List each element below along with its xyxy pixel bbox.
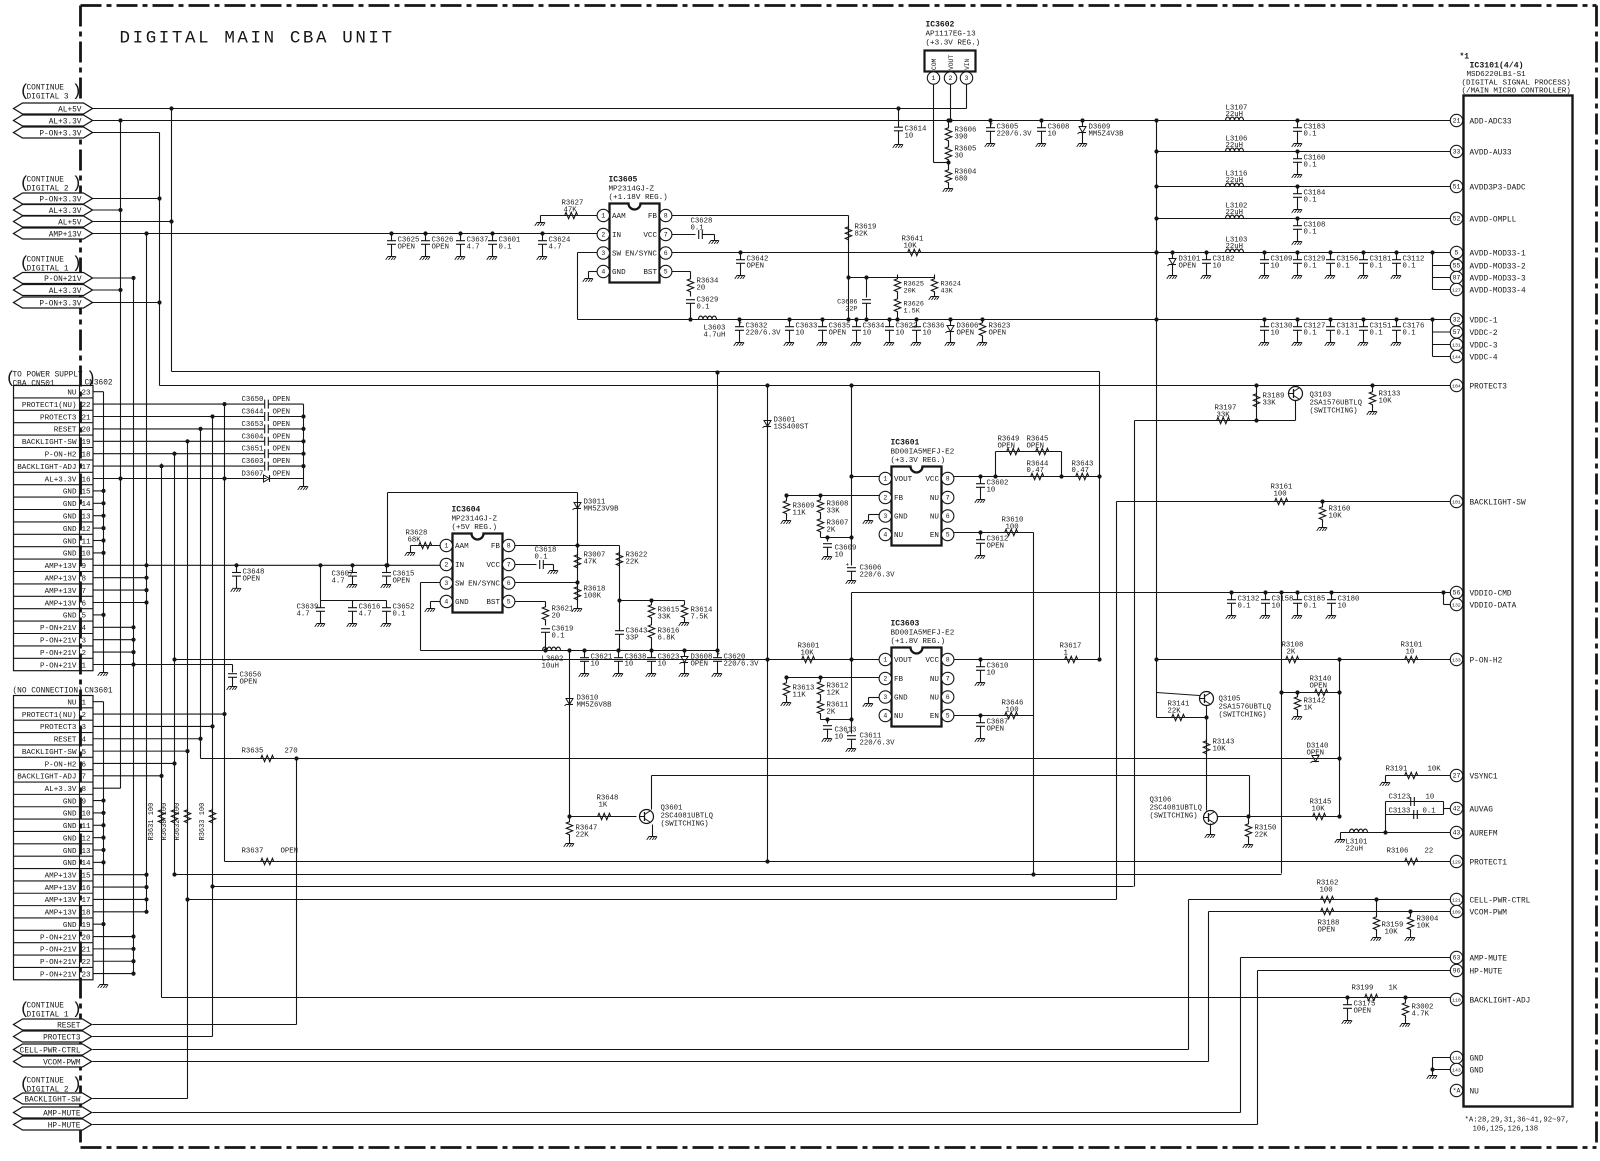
- svg-text:0.1: 0.1: [1238, 603, 1252, 611]
- svg-text:OPEN: OPEN: [987, 726, 1005, 734]
- svg-text:GND: GND: [63, 551, 77, 559]
- svg-text:P-ON+21V: P-ON+21V: [40, 947, 77, 955]
- svg-text:56: 56: [1453, 590, 1461, 597]
- svg-text:19: 19: [82, 439, 92, 447]
- svg-text:20: 20: [697, 285, 706, 293]
- svg-text:VDDC-3: VDDC-3: [1470, 342, 1498, 350]
- svg-text:6: 6: [507, 580, 511, 587]
- svg-text:MM5Z4V3B: MM5Z4V3B: [1089, 131, 1125, 139]
- svg-text:87: 87: [1453, 275, 1461, 282]
- svg-text:1: 1: [601, 213, 605, 220]
- svg-text:11K: 11K: [793, 510, 807, 518]
- svg-text:33P: 33P: [626, 635, 639, 643]
- svg-text:): ): [72, 1076, 82, 1095]
- svg-text:EN/SYNC: EN/SYNC: [468, 581, 500, 589]
- svg-text:GND: GND: [63, 811, 77, 819]
- svg-text:MP2314GJ-Z: MP2314GJ-Z: [452, 516, 498, 524]
- svg-text:0.1: 0.1: [1304, 229, 1318, 237]
- svg-text:15: 15: [82, 489, 92, 497]
- svg-text:9: 9: [82, 563, 87, 571]
- svg-text:143: 143: [1452, 1068, 1461, 1074]
- svg-text:): ): [72, 175, 82, 194]
- svg-text:P-ON+21V: P-ON+21V: [40, 959, 77, 967]
- svg-text:*1: *1: [1460, 53, 1470, 62]
- svg-text:0.1: 0.1: [1304, 603, 1318, 611]
- svg-text:): ): [72, 83, 82, 102]
- svg-text:30: 30: [955, 153, 964, 161]
- svg-text:(: (: [20, 83, 30, 102]
- svg-text:13: 13: [82, 514, 92, 522]
- svg-text:21: 21: [82, 947, 92, 955]
- svg-text:IC3603: IC3603: [891, 620, 920, 629]
- svg-text:P-ON+21V: P-ON+21V: [44, 276, 82, 284]
- svg-text:1: 1: [883, 476, 887, 483]
- svg-text:10K: 10K: [1385, 929, 1399, 937]
- svg-text:10K: 10K: [1312, 806, 1326, 814]
- svg-text:47K: 47K: [584, 559, 598, 567]
- svg-text:MSD6220LB1-S1: MSD6220LB1-S1: [1467, 71, 1527, 79]
- svg-text:OPEN: OPEN: [273, 446, 291, 454]
- svg-text:144: 144: [1452, 355, 1461, 361]
- svg-text:10: 10: [1213, 263, 1222, 271]
- svg-text:4.7: 4.7: [297, 611, 310, 619]
- svg-text:4.7: 4.7: [359, 611, 372, 619]
- svg-text:27: 27: [1453, 773, 1461, 780]
- svg-text:OPEN: OPEN: [281, 848, 299, 856]
- svg-text:82K: 82K: [855, 231, 869, 239]
- svg-text:2SA1576UBTLQ: 2SA1576UBTLQ: [1219, 704, 1272, 712]
- svg-text:VIN: VIN: [964, 58, 971, 70]
- svg-text:20: 20: [82, 427, 92, 435]
- svg-text:7: 7: [507, 562, 511, 569]
- svg-text:C3604: C3604: [242, 433, 265, 441]
- svg-text:D3607: D3607: [242, 471, 264, 479]
- svg-text:OPEN: OPEN: [1310, 683, 1328, 691]
- svg-text:AAM: AAM: [612, 213, 626, 221]
- svg-text:R3635: R3635: [242, 748, 264, 756]
- svg-text:1: 1: [82, 699, 87, 707]
- svg-text:AMP+13V: AMP+13V: [45, 873, 77, 881]
- svg-text:CN3602: CN3602: [85, 380, 113, 388]
- svg-text:OPEN: OPEN: [243, 575, 261, 583]
- svg-text:DIGITAL MAIN CBA UNIT: DIGITAL MAIN CBA UNIT: [120, 29, 395, 49]
- svg-text:(+1.8V REG.): (+1.8V REG.): [891, 638, 946, 646]
- svg-text:PROTECT1(NU): PROTECT1(NU): [22, 402, 77, 410]
- svg-text:100: 100: [1274, 491, 1287, 499]
- svg-text:P-ON+3.3V: P-ON+3.3V: [39, 196, 81, 204]
- svg-text:OPEN: OPEN: [957, 330, 975, 338]
- svg-text:17: 17: [82, 897, 91, 905]
- svg-text:4: 4: [883, 713, 887, 720]
- svg-text:1K: 1K: [1389, 985, 1398, 993]
- svg-text:R3106: R3106: [1387, 848, 1409, 856]
- svg-text:10: 10: [625, 661, 634, 669]
- svg-text:121: 121: [1452, 898, 1461, 904]
- svg-text:PROTECT3: PROTECT3: [43, 1034, 81, 1042]
- svg-text:VCC: VCC: [643, 232, 657, 240]
- svg-text:22uH: 22uH: [1226, 111, 1244, 119]
- svg-text:BACKLIGHT-ADJ: BACKLIGHT-ADJ: [17, 774, 76, 782]
- svg-text:AVDD-MOD33-2: AVDD-MOD33-2: [1470, 263, 1526, 271]
- svg-text:OPEN: OPEN: [1027, 443, 1045, 451]
- svg-text:(SWITCHING): (SWITCHING): [1150, 813, 1198, 821]
- svg-text:PROTECT3: PROTECT3: [40, 414, 77, 422]
- svg-text:ADD-ADC33: ADD-ADC33: [1470, 118, 1512, 126]
- svg-text:VCC: VCC: [925, 476, 939, 484]
- svg-text:OPEN: OPEN: [1318, 927, 1336, 935]
- svg-text:BACKLIGHT-SW: BACKLIGHT-SW: [24, 1096, 80, 1104]
- svg-text:10uH: 10uH: [542, 663, 560, 671]
- svg-text:10: 10: [987, 670, 996, 678]
- svg-text:6: 6: [82, 600, 87, 608]
- svg-text:GND: GND: [63, 514, 77, 522]
- svg-text:0.1: 0.1: [1370, 263, 1384, 271]
- svg-text:RESET: RESET: [54, 427, 77, 435]
- svg-text:FB: FB: [894, 495, 904, 503]
- svg-text:AL+3.3V: AL+3.3V: [45, 786, 77, 794]
- svg-text:OPEN: OPEN: [998, 443, 1016, 451]
- svg-text:0.1: 0.1: [1337, 263, 1351, 271]
- svg-text:101: 101: [1452, 500, 1461, 506]
- svg-text:GND: GND: [63, 538, 77, 546]
- svg-text:21: 21: [1453, 118, 1461, 125]
- svg-text:390: 390: [955, 134, 968, 142]
- svg-text:22uH: 22uH: [1226, 177, 1244, 185]
- svg-text:0.47: 0.47: [1072, 467, 1090, 475]
- svg-text:22: 22: [1425, 848, 1434, 856]
- svg-text:10: 10: [82, 811, 92, 819]
- svg-text:R3199: R3199: [1352, 985, 1374, 993]
- svg-text:1K: 1K: [599, 802, 608, 810]
- svg-text:AMP-MUTE: AMP-MUTE: [43, 1110, 81, 1118]
- svg-text:109: 109: [1452, 910, 1461, 916]
- svg-text:OPEN: OPEN: [273, 458, 291, 466]
- svg-text:22K: 22K: [576, 832, 590, 840]
- svg-text:10: 10: [82, 551, 92, 559]
- svg-text:BD00IA5MEFJ-E2: BD00IA5MEFJ-E2: [891, 449, 955, 457]
- svg-text:(: (: [20, 1076, 30, 1095]
- svg-text:8: 8: [507, 543, 511, 550]
- svg-text:OPEN: OPEN: [1307, 750, 1325, 758]
- svg-text:12: 12: [82, 526, 92, 534]
- svg-text:10: 10: [1338, 603, 1347, 611]
- svg-text:10K: 10K: [1417, 923, 1431, 931]
- svg-text:220/6.3V: 220/6.3V: [860, 740, 896, 748]
- svg-text:*A:28,29,31,36~41,92~97,: *A:28,29,31,36~41,92~97,: [1465, 1117, 1570, 1125]
- svg-text:7.5K: 7.5K: [691, 614, 709, 622]
- svg-text:(DIGITAL SIGNAL PROCESS): (DIGITAL SIGNAL PROCESS): [1462, 80, 1571, 88]
- svg-text:8: 8: [664, 213, 668, 220]
- svg-text:P-ON+21V: P-ON+21V: [40, 662, 77, 670]
- svg-text:CONTINUE: CONTINUE: [27, 1003, 65, 1011]
- svg-text:33K: 33K: [1217, 412, 1231, 420]
- svg-text:6: 6: [946, 513, 950, 520]
- svg-text:2: 2: [601, 232, 605, 239]
- svg-text:1: 1: [82, 662, 87, 670]
- svg-text:(+3.3V REG.): (+3.3V REG.): [891, 457, 946, 465]
- svg-text:NU: NU: [894, 532, 904, 540]
- svg-text:23: 23: [82, 390, 92, 398]
- svg-text:GND: GND: [63, 823, 77, 831]
- svg-text:220/6.3V: 220/6.3V: [860, 572, 896, 580]
- svg-text:4.7: 4.7: [332, 577, 345, 585]
- svg-text:1: 1: [1064, 650, 1069, 658]
- svg-text:PROTECT3: PROTECT3: [40, 724, 77, 732]
- svg-text:OPEN: OPEN: [273, 471, 291, 479]
- svg-text:0.1: 0.1: [1403, 263, 1417, 271]
- svg-text:68K: 68K: [408, 537, 422, 545]
- svg-text:131: 131: [1452, 343, 1461, 349]
- svg-text:0.1: 0.1: [1370, 330, 1384, 338]
- svg-text:AVDD-OMPLL: AVDD-OMPLL: [1470, 216, 1517, 224]
- svg-text:7: 7: [82, 588, 87, 596]
- svg-text:10: 10: [1272, 603, 1281, 611]
- svg-text:10K: 10K: [1329, 513, 1343, 521]
- svg-text:OPEN: OPEN: [1179, 263, 1197, 271]
- svg-text:+: +: [846, 562, 850, 569]
- svg-text:10K: 10K: [1428, 766, 1442, 774]
- svg-text:6: 6: [82, 761, 87, 769]
- svg-text:0.1: 0.1: [1304, 162, 1318, 170]
- svg-text:10: 10: [987, 487, 996, 495]
- svg-text:2: 2: [883, 676, 887, 683]
- svg-text:*A: *A: [1453, 1088, 1461, 1095]
- svg-text:P-ON+21V: P-ON+21V: [40, 638, 77, 646]
- svg-text:0.1: 0.1: [697, 304, 711, 312]
- svg-text:0.1: 0.1: [1403, 330, 1417, 338]
- svg-text:5: 5: [82, 613, 87, 621]
- svg-text:10: 10: [796, 330, 805, 338]
- svg-text:): ): [72, 1001, 82, 1020]
- svg-text:MM5Z6V8B: MM5Z6V8B: [577, 702, 613, 710]
- svg-text:0.1: 0.1: [1304, 330, 1318, 338]
- svg-text:57: 57: [1453, 329, 1461, 336]
- svg-text:NU: NU: [1470, 1088, 1480, 1096]
- svg-text:OPEN: OPEN: [398, 244, 416, 252]
- svg-text:(: (: [20, 255, 30, 274]
- svg-text:5: 5: [507, 599, 511, 606]
- svg-text:129: 129: [1452, 860, 1461, 866]
- svg-text:VCC: VCC: [925, 657, 939, 665]
- svg-text:22uH: 22uH: [1226, 243, 1244, 251]
- svg-text:2: 2: [883, 495, 887, 502]
- svg-text:22uH: 22uH: [1226, 142, 1244, 150]
- svg-text:55: 55: [1453, 263, 1461, 270]
- svg-text:(+3.3V REG.): (+3.3V REG.): [926, 40, 981, 48]
- svg-text:4.7uH: 4.7uH: [704, 332, 726, 340]
- svg-text:Q3103: Q3103: [1310, 392, 1332, 400]
- svg-text:HP-MUTE: HP-MUTE: [1470, 968, 1503, 976]
- svg-text:0.47: 0.47: [1027, 467, 1045, 475]
- svg-text:+: +: [717, 651, 721, 658]
- svg-text:11: 11: [82, 538, 92, 546]
- svg-text:22K: 22K: [1255, 832, 1269, 840]
- svg-text:BACKLIGHT-SW: BACKLIGHT-SW: [22, 749, 77, 757]
- svg-text:(SWITCHING): (SWITCHING): [1310, 408, 1358, 416]
- svg-text:33K: 33K: [658, 614, 672, 622]
- svg-text:C3133: C3133: [1389, 808, 1411, 816]
- svg-text:10K: 10K: [801, 650, 815, 658]
- svg-text:FB: FB: [894, 676, 904, 684]
- svg-text:22P: 22P: [845, 306, 857, 314]
- svg-text:22K: 22K: [626, 559, 640, 567]
- svg-text:NU: NU: [67, 390, 77, 398]
- svg-text:0.1: 0.1: [552, 633, 566, 641]
- svg-text:96: 96: [1453, 968, 1461, 975]
- svg-text:AVDD3P3-DADC: AVDD3P3-DADC: [1470, 184, 1526, 192]
- svg-text:220/6.3V: 220/6.3V: [997, 131, 1033, 139]
- svg-text:GND: GND: [612, 269, 626, 277]
- svg-text:5: 5: [82, 749, 87, 757]
- svg-text:OPEN: OPEN: [273, 396, 291, 404]
- svg-text:2: 2: [444, 562, 448, 569]
- svg-text:MP2314GJ-Z: MP2314GJ-Z: [609, 186, 655, 194]
- svg-text:33K: 33K: [827, 508, 841, 516]
- svg-text:C3653: C3653: [242, 421, 264, 429]
- svg-text:GND: GND: [63, 798, 77, 806]
- svg-text:IC3101(4/4): IC3101(4/4): [1470, 61, 1524, 71]
- svg-text:P-ON-H2: P-ON-H2: [1470, 657, 1503, 665]
- svg-text:1: 1: [932, 75, 936, 82]
- svg-text:9: 9: [82, 798, 87, 806]
- svg-text:GND: GND: [63, 860, 77, 868]
- svg-text:100: 100: [1006, 524, 1019, 532]
- svg-text:BD00IA5MEFJ-E2: BD00IA5MEFJ-E2: [891, 630, 955, 638]
- svg-text:FB: FB: [648, 213, 658, 221]
- svg-text:CONTINUE: CONTINUE: [27, 257, 65, 265]
- svg-text:110: 110: [1452, 998, 1461, 1004]
- svg-text:7: 7: [946, 495, 950, 502]
- svg-text:14: 14: [82, 860, 92, 868]
- svg-text:GND: GND: [894, 695, 908, 703]
- svg-text:10: 10: [1406, 649, 1415, 657]
- svg-text:10K: 10K: [1213, 746, 1227, 754]
- svg-text:20: 20: [552, 613, 561, 621]
- svg-text:BST: BST: [643, 269, 657, 277]
- svg-text:IN: IN: [455, 562, 464, 570]
- svg-text:6: 6: [664, 250, 668, 257]
- svg-text:33K: 33K: [1263, 400, 1277, 408]
- svg-text:(: (: [20, 175, 30, 194]
- svg-text:5: 5: [664, 269, 668, 276]
- svg-text:RESET: RESET: [57, 1022, 81, 1030]
- svg-text:2K: 2K: [827, 709, 836, 717]
- svg-text:12: 12: [82, 835, 92, 843]
- svg-text:EN/SYNC: EN/SYNC: [625, 251, 657, 259]
- svg-text:P-ON+21V: P-ON+21V: [40, 934, 77, 942]
- svg-text:Q3601: Q3601: [661, 805, 684, 813]
- svg-text:CONTINUE: CONTINUE: [27, 85, 65, 93]
- svg-text:CBA CN501: CBA CN501: [13, 381, 55, 389]
- svg-text:0.1: 0.1: [691, 225, 705, 233]
- svg-text:+: +: [846, 730, 850, 737]
- svg-text:2K: 2K: [827, 527, 836, 535]
- svg-text:R3638 100: R3638 100: [161, 803, 169, 841]
- svg-text:4: 4: [82, 737, 87, 745]
- svg-text:DIGITAL 3: DIGITAL 3: [27, 94, 69, 102]
- svg-text:2SC4081UBTLQ: 2SC4081UBTLQ: [1150, 805, 1203, 813]
- svg-text:2K: 2K: [1287, 649, 1296, 657]
- svg-text:VOUT: VOUT: [894, 476, 913, 484]
- svg-text:AL+3.3V: AL+3.3V: [49, 118, 82, 126]
- svg-text:BACKLIGHT-SW: BACKLIGHT-SW: [1470, 499, 1526, 507]
- svg-text:CELL-PWR-CTRL: CELL-PWR-CTRL: [20, 1047, 81, 1055]
- svg-text:0.1: 0.1: [1423, 808, 1437, 816]
- svg-text:GND: GND: [63, 501, 77, 509]
- svg-text:AMP-MUTE: AMP-MUTE: [1470, 955, 1508, 963]
- svg-text:11: 11: [82, 823, 92, 831]
- svg-text:OPEN: OPEN: [1354, 1008, 1372, 1016]
- svg-text:AMP+13V: AMP+13V: [49, 231, 82, 239]
- svg-text:CONTINUE: CONTINUE: [27, 1078, 65, 1086]
- svg-text:VOUT: VOUT: [948, 55, 955, 70]
- svg-text:118: 118: [1452, 1056, 1461, 1062]
- svg-text:VDDIO-CMD: VDDIO-CMD: [1470, 590, 1512, 598]
- svg-text:(SWITCHING): (SWITCHING): [1219, 712, 1267, 720]
- svg-text:R3637: R3637: [242, 848, 264, 856]
- svg-text:23: 23: [82, 971, 92, 979]
- svg-text:21: 21: [82, 414, 92, 422]
- svg-text:OPEN: OPEN: [747, 263, 765, 271]
- svg-text:10: 10: [1271, 330, 1280, 338]
- svg-text:C3651: C3651: [242, 446, 265, 454]
- svg-text:(NO CONNECTION): (NO CONNECTION): [13, 688, 83, 696]
- svg-text:GND: GND: [63, 848, 77, 856]
- svg-text:14: 14: [82, 501, 92, 509]
- svg-text:(+5V REG.): (+5V REG.): [452, 524, 498, 532]
- svg-text:51: 51: [1453, 184, 1461, 191]
- svg-text:1.5K: 1.5K: [904, 308, 921, 316]
- svg-text:PROTECT3: PROTECT3: [1470, 383, 1508, 391]
- svg-text:VOUT: VOUT: [894, 657, 913, 665]
- svg-text:R3191: R3191: [1386, 766, 1409, 774]
- svg-text:18: 18: [82, 910, 92, 918]
- svg-text:11K: 11K: [793, 692, 807, 700]
- svg-text:22uH: 22uH: [1226, 209, 1244, 217]
- svg-text:10K: 10K: [1379, 398, 1393, 406]
- svg-text:18: 18: [82, 452, 92, 460]
- svg-text:33: 33: [1453, 149, 1461, 156]
- svg-text:AAM: AAM: [455, 543, 469, 551]
- svg-text:1K: 1K: [1304, 705, 1313, 713]
- svg-text:(+1.18V REG.): (+1.18V REG.): [609, 194, 668, 202]
- svg-text:NU: NU: [930, 676, 940, 684]
- svg-text:P-ON+3.3V: P-ON+3.3V: [39, 300, 81, 308]
- svg-text:NU: NU: [930, 514, 940, 522]
- svg-text:AVDD-MOD33-3: AVDD-MOD33-3: [1470, 275, 1526, 283]
- svg-text:47K: 47K: [564, 207, 578, 215]
- svg-text:12K: 12K: [827, 690, 841, 698]
- svg-text:AVDD-AU33: AVDD-AU33: [1470, 149, 1512, 157]
- svg-text:OPEN: OPEN: [273, 421, 291, 429]
- svg-text:IN: IN: [612, 232, 621, 240]
- svg-text:0.1: 0.1: [1337, 330, 1351, 338]
- svg-text:1: 1: [883, 657, 887, 664]
- svg-text:132: 132: [1452, 603, 1461, 609]
- svg-text:10: 10: [835, 552, 844, 560]
- svg-text:100: 100: [1006, 707, 1019, 715]
- svg-text:IC3605: IC3605: [609, 176, 638, 185]
- svg-text:7: 7: [664, 232, 668, 239]
- svg-text:AUVAG: AUVAG: [1470, 806, 1494, 814]
- svg-text:19: 19: [82, 922, 92, 930]
- svg-text:5: 5: [946, 532, 950, 539]
- svg-text:VCOM-PWM: VCOM-PWM: [43, 1059, 81, 1067]
- svg-text:220/6.3V: 220/6.3V: [746, 330, 782, 338]
- svg-text:270: 270: [285, 748, 298, 756]
- svg-text:COM: COM: [931, 58, 938, 70]
- svg-text:AVDD-MOD33-1: AVDD-MOD33-1: [1470, 250, 1526, 258]
